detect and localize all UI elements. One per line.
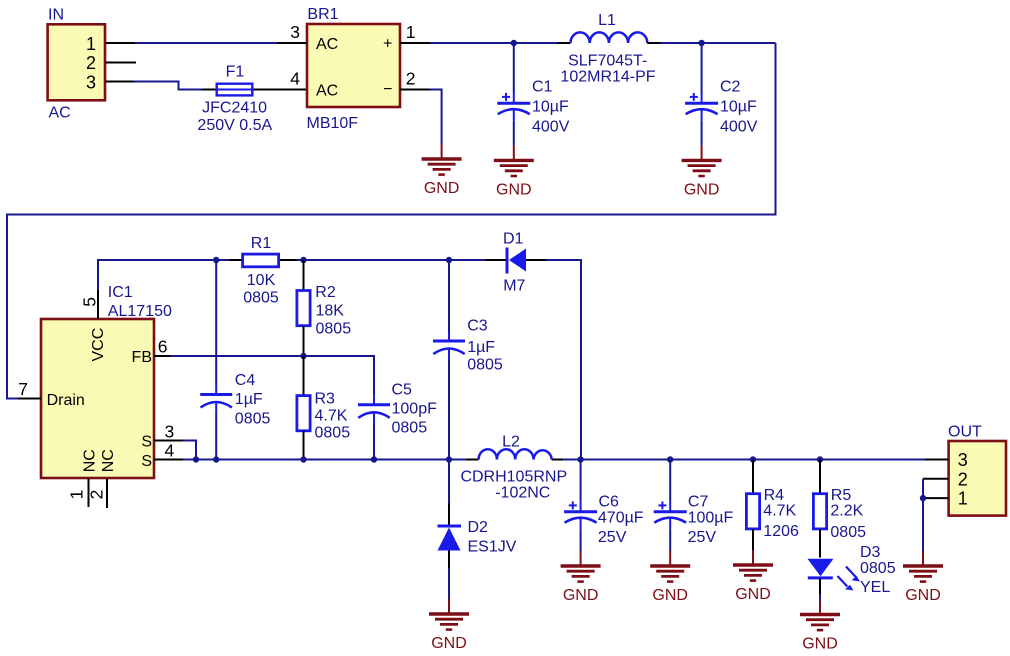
svg-text:1: 1 bbox=[406, 22, 416, 42]
svg-text:SLF7045T-: SLF7045T- bbox=[568, 53, 647, 70]
svg-text:0805: 0805 bbox=[316, 321, 352, 338]
svg-text:25V: 25V bbox=[688, 529, 717, 546]
IC IC1 AL17150 bbox=[18, 284, 174, 499]
svg-text:100µF: 100µF bbox=[688, 510, 734, 527]
junction C5 bottom bbox=[371, 456, 377, 462]
pin IN-2 stub bbox=[105, 62, 136, 64]
wire FB rail bbox=[170, 356, 374, 395]
wire IN-3 to F1 bbox=[134, 82, 202, 90]
pin IC1-5 VCC bbox=[97, 290, 99, 319]
svg-text:0805: 0805 bbox=[243, 290, 279, 307]
wire bottom rail left bbox=[184, 459, 466, 461]
svg-text:2: 2 bbox=[958, 469, 968, 489]
svg-text:2: 2 bbox=[406, 68, 416, 88]
svg-text:7: 7 bbox=[18, 379, 28, 399]
svg-text:1: 1 bbox=[86, 34, 96, 54]
junction C1 top bbox=[511, 40, 517, 46]
ground GND-C6 bbox=[561, 551, 601, 604]
svg-text:R1: R1 bbox=[251, 235, 272, 252]
diode D2 ES1JV bbox=[438, 460, 517, 600]
svg-text:1: 1 bbox=[958, 489, 968, 509]
svg-text:GND: GND bbox=[684, 181, 720, 198]
svg-text:-102NC: -102NC bbox=[495, 485, 550, 502]
pin IC1-3 S bbox=[154, 440, 184, 442]
ground GND-R4 bbox=[733, 550, 773, 603]
svg-text:GND: GND bbox=[735, 586, 771, 603]
junction C4 bottom bbox=[213, 456, 219, 462]
pin IN-3 bbox=[105, 81, 134, 83]
svg-text:0805: 0805 bbox=[392, 420, 428, 437]
junction C4 top bbox=[213, 257, 219, 263]
junction R2-R3-FB bbox=[300, 353, 306, 359]
ground GND-D3 bbox=[800, 601, 840, 653]
connector J-OUT bbox=[948, 424, 1006, 516]
resistor R4 4.7K 1206 bbox=[746, 460, 799, 551]
ground GND-C2 bbox=[682, 145, 722, 198]
resistor R5 2.2K bbox=[813, 460, 866, 558]
svg-text:2.2K: 2.2K bbox=[830, 503, 863, 520]
pin OUT-3 bbox=[925, 459, 949, 461]
pin OUT-1 bbox=[923, 497, 949, 499]
svg-text:R4: R4 bbox=[764, 487, 785, 504]
svg-text:4.7K: 4.7K bbox=[763, 503, 796, 520]
pin BR1-3 bbox=[277, 42, 307, 44]
junction R2 top bbox=[300, 257, 306, 263]
svg-text:3: 3 bbox=[290, 22, 300, 42]
svg-text:10K: 10K bbox=[247, 272, 276, 289]
svg-text:R3: R3 bbox=[315, 391, 336, 408]
svg-text:OUT: OUT bbox=[948, 424, 982, 441]
wire BR1-2 to GND bbox=[430, 90, 442, 145]
svg-text:4.7K: 4.7K bbox=[315, 408, 348, 425]
svg-text:AL17150: AL17150 bbox=[108, 303, 172, 320]
svg-text:GND: GND bbox=[652, 587, 688, 604]
svg-text:+: + bbox=[383, 36, 392, 53]
svg-text:−: − bbox=[383, 81, 392, 98]
svg-text:R5: R5 bbox=[831, 487, 852, 504]
diode D1 M7 bbox=[486, 231, 546, 295]
svg-text:0805: 0805 bbox=[860, 560, 896, 577]
capacitor C4 1uF bbox=[200, 260, 270, 460]
wire return loop right-top to Drain bbox=[7, 43, 776, 399]
svg-text:18K: 18K bbox=[316, 303, 345, 320]
wire bottom rail right (node VOUT) bbox=[563, 459, 925, 461]
pin IC1-2 NC bbox=[106, 478, 108, 508]
svg-text:2: 2 bbox=[86, 53, 96, 73]
fuse F1 bbox=[197, 64, 307, 135]
ground GND-C1 bbox=[494, 145, 534, 198]
junction R3 bottom bbox=[300, 456, 306, 462]
svg-text:1206: 1206 bbox=[763, 523, 799, 540]
svg-text:102MR14-PF: 102MR14-PF bbox=[560, 69, 655, 86]
capacitor C3 1uF bbox=[433, 260, 503, 460]
junction R4 top bbox=[750, 456, 756, 462]
junction S pins bbox=[193, 456, 199, 462]
svg-text:470µF: 470µF bbox=[598, 510, 644, 527]
pin IN-1 bbox=[105, 42, 135, 44]
svg-text:3: 3 bbox=[165, 421, 175, 441]
svg-text:C1: C1 bbox=[532, 79, 553, 96]
svg-text:IN: IN bbox=[48, 7, 64, 24]
resistor R2 18K bbox=[297, 260, 351, 356]
svg-text:3: 3 bbox=[86, 72, 96, 92]
svg-text:S: S bbox=[141, 453, 152, 470]
junction R5 top bbox=[817, 456, 823, 462]
svg-text:ES1JV: ES1JV bbox=[468, 539, 517, 556]
svg-text:C2: C2 bbox=[720, 79, 741, 96]
wire BR1-1 to L1 (node VIN) bbox=[430, 42, 557, 44]
svg-text:GND: GND bbox=[496, 181, 532, 198]
svg-text:250V 0.5A: 250V 0.5A bbox=[197, 117, 272, 134]
svg-text:D3: D3 bbox=[860, 544, 881, 561]
svg-text:F1: F1 bbox=[226, 64, 245, 81]
svg-text:0805: 0805 bbox=[315, 425, 351, 442]
pin BR1-1 bbox=[400, 42, 430, 44]
ground GND-D2 bbox=[429, 599, 469, 652]
svg-text:JFC2410: JFC2410 bbox=[202, 100, 267, 117]
pin IC1-6 FB bbox=[154, 355, 170, 357]
junction C3 top bbox=[446, 257, 452, 263]
svg-text:NC: NC bbox=[82, 449, 99, 472]
capacitor C2 10uF 400V bbox=[685, 43, 758, 145]
svg-text:C3: C3 bbox=[467, 318, 488, 335]
svg-text:AC: AC bbox=[316, 36, 338, 53]
wire IN-1 to BR1-3 bbox=[135, 42, 277, 44]
inductor L1 SLF7045T bbox=[557, 12, 661, 86]
svg-text:R2: R2 bbox=[315, 284, 336, 301]
svg-text:0805: 0805 bbox=[830, 524, 866, 541]
svg-text:D2: D2 bbox=[468, 519, 489, 536]
svg-text:NC: NC bbox=[100, 449, 117, 472]
svg-text:GND: GND bbox=[905, 587, 941, 604]
svg-text:MB10F: MB10F bbox=[307, 115, 359, 132]
ground GND-OUT bbox=[903, 551, 943, 604]
svg-text:400V: 400V bbox=[720, 119, 758, 136]
junction C2 top bbox=[698, 40, 704, 46]
connector J-IN (AC input) bbox=[48, 7, 105, 122]
wire VCC to top rail bbox=[98, 260, 230, 290]
svg-text:CDRH105RNP: CDRH105RNP bbox=[460, 468, 567, 485]
LED D3 yellow bbox=[808, 544, 896, 601]
svg-text:BR1: BR1 bbox=[307, 6, 338, 23]
svg-text:YEL: YEL bbox=[860, 579, 890, 596]
pin IC1-7 Drain bbox=[18, 398, 41, 400]
svg-text:0805: 0805 bbox=[235, 411, 271, 428]
svg-text:1µF: 1µF bbox=[235, 391, 263, 408]
wire L1 to corner (node VOUT-top) bbox=[661, 42, 776, 44]
svg-text:1: 1 bbox=[67, 490, 87, 500]
wire D1 to bottom rail bbox=[546, 260, 581, 460]
wire S3 jog bbox=[184, 441, 196, 460]
resistor R1 10K bbox=[230, 235, 297, 307]
resistor R3 4.7K bbox=[297, 356, 350, 460]
svg-text:GND: GND bbox=[424, 180, 460, 197]
svg-text:GND: GND bbox=[563, 587, 599, 604]
svg-text:C4: C4 bbox=[235, 372, 256, 389]
svg-text:4: 4 bbox=[165, 441, 175, 461]
svg-text:10µF: 10µF bbox=[720, 99, 757, 116]
ground GND-BR1 bbox=[422, 144, 462, 197]
pin BR1-2 bbox=[400, 89, 430, 91]
svg-text:0805: 0805 bbox=[467, 357, 503, 374]
wire OUT-2 to OUT-1 tie bbox=[922, 479, 924, 551]
junction L1R-D1-C6 bbox=[577, 456, 583, 462]
svg-text:L2: L2 bbox=[502, 434, 520, 451]
capacitor C6 470uF 25V bbox=[564, 460, 644, 552]
svg-text:1µF: 1µF bbox=[467, 339, 495, 356]
pin OUT-2 bbox=[923, 478, 949, 480]
junction C7 top bbox=[667, 456, 673, 462]
pin IC1-4 S bbox=[154, 459, 184, 461]
svg-text:100pF: 100pF bbox=[392, 401, 438, 418]
svg-text:M7: M7 bbox=[503, 278, 525, 295]
capacitor C5 100pF bbox=[358, 382, 437, 460]
svg-text:D1: D1 bbox=[503, 231, 524, 248]
bridge rectifier BR1 MB10F bbox=[290, 6, 415, 132]
svg-text:C5: C5 bbox=[392, 382, 413, 399]
svg-text:25V: 25V bbox=[598, 529, 627, 546]
svg-text:AC: AC bbox=[49, 105, 71, 122]
svg-text:S: S bbox=[141, 434, 152, 451]
svg-text:400V: 400V bbox=[532, 119, 570, 136]
svg-text:6: 6 bbox=[158, 337, 168, 357]
svg-text:FB: FB bbox=[132, 349, 152, 366]
svg-text:AC: AC bbox=[316, 82, 338, 99]
svg-text:IC1: IC1 bbox=[108, 284, 133, 301]
svg-text:L1: L1 bbox=[598, 12, 616, 29]
pin IC1-1 NC bbox=[88, 478, 90, 507]
svg-text:Drain: Drain bbox=[47, 392, 85, 409]
capacitor C7 100uF 25V bbox=[654, 460, 734, 552]
svg-text:4: 4 bbox=[290, 68, 300, 88]
svg-text:C6: C6 bbox=[599, 494, 620, 511]
wire R1 to D1 (top rail) bbox=[297, 259, 487, 261]
svg-text:3: 3 bbox=[958, 450, 968, 470]
svg-text:5: 5 bbox=[80, 297, 100, 307]
ground GND-C7 bbox=[650, 551, 690, 604]
svg-text:10µF: 10µF bbox=[532, 99, 569, 116]
svg-text:GND: GND bbox=[431, 635, 467, 652]
inductor L2 CDRH105RNP bbox=[460, 434, 567, 502]
junction C3-D2-L2 node bbox=[446, 456, 452, 462]
svg-text:VCC: VCC bbox=[90, 328, 107, 362]
svg-text:C7: C7 bbox=[688, 494, 709, 511]
capacitor C1 10uF 400V bbox=[497, 43, 569, 145]
svg-text:GND: GND bbox=[802, 636, 838, 653]
junction OUT1-OUT2 bbox=[920, 495, 926, 501]
